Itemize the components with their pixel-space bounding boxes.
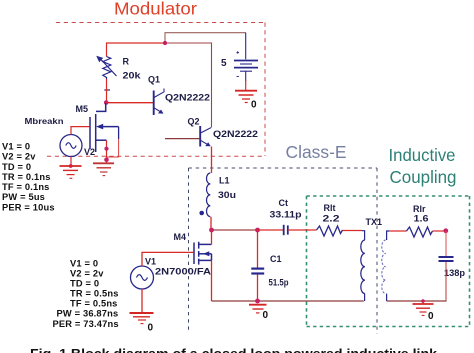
svg-text:Modulator: Modulator [114, 0, 197, 19]
svg-text:TX1: TX1 [366, 217, 383, 227]
svg-text:TD = 0: TD = 0 [70, 279, 99, 289]
source V2 [60, 135, 82, 157]
svg-text:20k: 20k [123, 71, 142, 81]
wire cap bottom [445, 262, 447, 301]
capacitor Ct [284, 225, 288, 235]
source V1 [131, 266, 154, 289]
ground (secondary) [421, 299, 425, 303]
wire down to cap 138p [445, 231, 447, 256]
svg-text:C1: C1 [270, 254, 282, 264]
svg-text:Class-E: Class-E [286, 142, 347, 162]
resistor Rlt [317, 226, 343, 236]
svg-text:TR = 0.1ns: TR = 0.1ns [2, 172, 51, 182]
L1 phase dot [199, 211, 204, 216]
battery V3 5V [234, 51, 258, 76]
node dot (R/M5/Q1 base) [104, 100, 109, 105]
svg-text:Mbreakn: Mbreakn [25, 116, 64, 126]
wire Rlr to node [433, 230, 447, 232]
node dot rail [163, 41, 167, 45]
svg-text:PER = 73.47ns: PER = 73.47ns [53, 319, 119, 329]
wire Ct to Rlt [288, 229, 317, 231]
wire L1 bottom [210, 217, 212, 230]
svg-text:0: 0 [428, 311, 434, 322]
R bottom terminal [104, 89, 110, 91]
svg-text:V2 = 2v: V2 = 2v [70, 269, 104, 279]
mosfet M4 [194, 242, 212, 265]
svg-text:Q2N2222: Q2N2222 [213, 129, 258, 139]
bottom rail secondary [387, 300, 447, 302]
transistor Q2 [200, 126, 211, 147]
svg-text:V1: V1 [145, 257, 156, 267]
svg-text:1.6: 1.6 [414, 214, 429, 224]
wire TX1 secondary top [389, 230, 407, 232]
svg-text:0: 0 [148, 323, 154, 334]
arrowhead of R [96, 56, 103, 62]
svg-text:TD = 0: TD = 0 [2, 162, 31, 172]
svg-text:Q2N2222: Q2N2222 [165, 93, 210, 103]
svg-text:V1 = 0: V1 = 0 [2, 142, 30, 152]
svg-text:33.11p: 33.11p [270, 210, 303, 220]
wire rail2 right (to Q2 collector) [165, 43, 212, 128]
class-E dashed box [189, 168, 378, 334]
ground (C1) [249, 305, 267, 313]
node dot Rlr right [443, 228, 448, 233]
svg-text:2N7000/FA: 2N7000/FA [155, 267, 212, 277]
mosfet M5 [90, 103, 119, 152]
transistor Q1 [154, 89, 164, 116]
ground (V2) [60, 166, 82, 178]
node dot C1 bottom [255, 299, 260, 304]
battery wire bottom [245, 72, 247, 82]
svg-text:0: 0 [263, 310, 269, 321]
svg-text:TF = 0.5ns: TF = 0.5ns [70, 299, 118, 309]
svg-text:30u: 30u [218, 190, 236, 200]
svg-text:L1: L1 [219, 176, 230, 186]
svg-text:5: 5 [221, 58, 227, 69]
ground (M5 source) [93, 163, 114, 175]
battery wire top [245, 33, 247, 60]
svg-text:R: R [123, 57, 130, 67]
wire Rlt to TX1 [343, 230, 363, 232]
svg-text:TF = 0.1ns: TF = 0.1ns [2, 182, 50, 192]
svg-text:Inductive: Inductive [389, 145, 456, 165]
svg-text:V2: V2 [84, 147, 95, 157]
svg-text:PER = 10us: PER = 10us [2, 203, 55, 213]
wire V1 to M4 gate [142, 252, 194, 266]
TX1 secondary coil (ghosted) [387, 231, 389, 240]
resistor Rlr [407, 227, 433, 237]
wire V2 to gate [71, 127, 90, 135]
wire V2 bottom [70, 157, 72, 167]
params text V1 source [53, 259, 119, 330]
svg-text:V2 = 2v: V2 = 2v [2, 152, 36, 162]
capacitor C1 [257, 230, 259, 268]
wire top rail1 (battery to node) [165, 33, 246, 43]
wire Q2 base [165, 138, 200, 140]
svg-text:Ct: Ct [279, 198, 289, 208]
wire M4 source down [211, 260, 213, 301]
M5 body arrow [96, 124, 103, 130]
svg-text:Fig. 1 Block diagram of a clos: Fig. 1 Block diagram of a closed loop po… [30, 346, 438, 353]
inductor L1 [207, 173, 211, 217]
svg-text:PW = 5us: PW = 5us [2, 192, 45, 202]
params text V2 source [2, 142, 55, 213]
svg-text:V1 = 0: V1 = 0 [70, 259, 98, 269]
inductive coupling dashed box [307, 196, 470, 327]
ground (V1) [130, 313, 154, 324]
svg-text:M5: M5 [76, 104, 89, 114]
wire main node y230 left [212, 229, 258, 231]
wire V1 bottom [141, 289, 143, 313]
svg-text:M4: M4 [174, 232, 187, 242]
ground (battery) [235, 91, 257, 103]
wire to Ct [258, 229, 284, 231]
svg-text:TR = 0.5ns: TR = 0.5ns [70, 289, 119, 299]
wire M5 source down [106, 140, 108, 162]
wire Q2 emitter to L1 [211, 147, 213, 174]
bottom rail class-E [212, 300, 364, 302]
node dot M4 drain [209, 228, 214, 233]
svg-text:138p: 138p [444, 268, 466, 278]
svg-text:Q1: Q1 [148, 75, 160, 85]
svg-text:51.5p: 51.5p [269, 278, 289, 288]
M4 body arrow [203, 251, 209, 256]
svg-text:Rlr: Rlr [413, 204, 426, 214]
capacitor 138p [439, 257, 454, 261]
svg-text:PW = 36.87ns: PW = 36.87ns [57, 309, 119, 319]
wire Q1 base [107, 102, 154, 104]
svg-text:Coupling: Coupling [390, 167, 457, 187]
TX1 primary coil [362, 231, 365, 240]
svg-text:2.2: 2.2 [323, 214, 340, 224]
svg-text:0: 0 [251, 100, 257, 111]
svg-text:Rlt: Rlt [324, 203, 336, 213]
wire M4 drain up [211, 230, 213, 244]
wire rail2 left (R top) [107, 43, 166, 57]
node dot C1 top [255, 228, 260, 233]
modulator dashed box [47, 23, 265, 157]
resistor R (variable) [100, 57, 117, 80]
M5 body tie wire [118, 127, 120, 139]
svg-text:Q2: Q2 [188, 117, 200, 127]
